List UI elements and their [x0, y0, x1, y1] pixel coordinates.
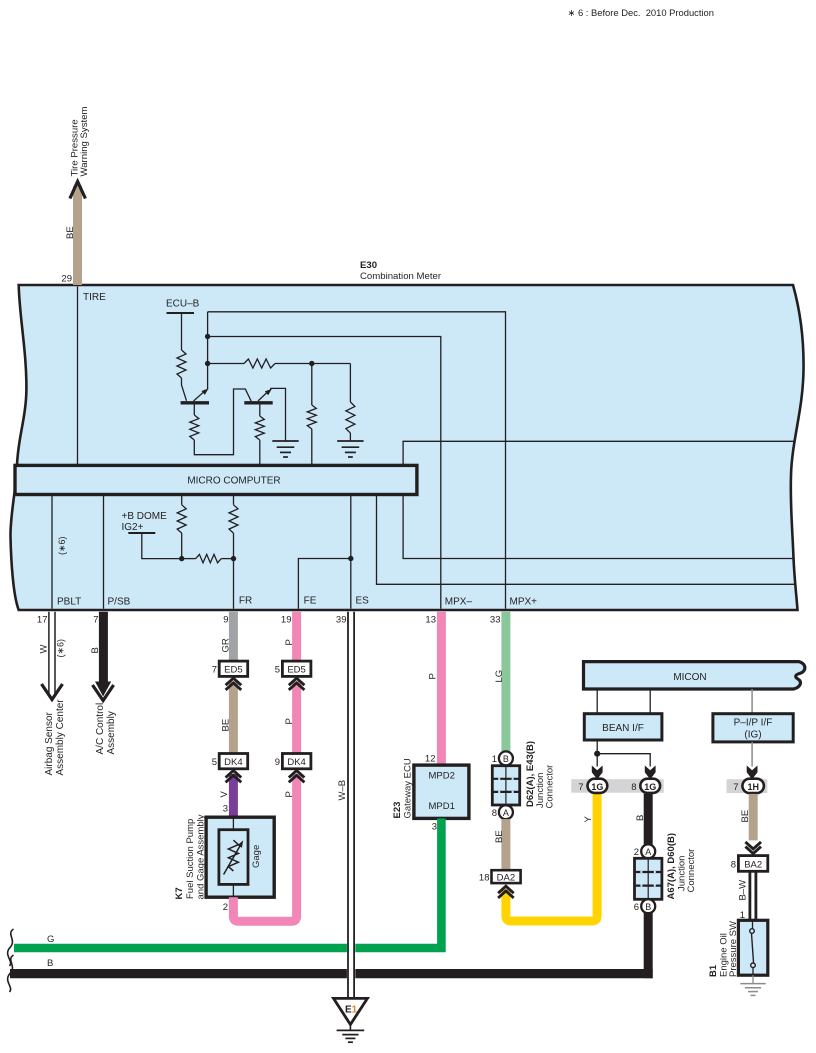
- connector oval 1G pin7: [588, 779, 608, 793]
- svg-text:B: B: [645, 902, 651, 912]
- svg-text:A67(A), D60(B): A67(A), D60(B): [666, 833, 677, 900]
- wire GR pin9: [229, 612, 238, 664]
- resistor R4: [349, 364, 351, 403]
- svg-text:DK4: DK4: [287, 757, 305, 768]
- svg-text:E30: E30: [360, 260, 377, 271]
- svg-text:B1: B1: [708, 964, 719, 977]
- gray band 1G: [571, 779, 663, 793]
- svg-text:1G: 1G: [644, 782, 656, 792]
- svg-text:P–I/P I/F: P–I/P I/F: [734, 718, 773, 729]
- svg-text:E1: E1: [345, 1005, 358, 1016]
- svg-text:2: 2: [634, 847, 639, 858]
- svg-text:MPD2: MPD2: [429, 771, 455, 782]
- svg-text:B–W: B–W: [738, 880, 749, 901]
- svg-text:6: 6: [634, 902, 639, 913]
- connector DK4 pin5: [219, 754, 248, 769]
- svg-text:MPX+: MPX+: [510, 597, 538, 608]
- svg-text:+B DOME: +B DOME: [122, 511, 168, 522]
- svg-text:Combination Meter: Combination Meter: [360, 271, 442, 282]
- svg-text:Connector: Connector: [686, 849, 697, 893]
- svg-text:7: 7: [212, 664, 217, 675]
- svg-text:B: B: [47, 958, 53, 969]
- svg-text:Airbag SensorAssembly Center: Airbag SensorAssembly Center: [44, 699, 66, 776]
- P-I/P I/F (IG) box: [713, 714, 793, 742]
- wire Q1 emitter up: [207, 312, 209, 390]
- BEAN I/F box: [584, 714, 662, 740]
- arrow into connector: [592, 766, 603, 780]
- svg-text:FR: FR: [239, 596, 252, 607]
- wire MPX+ from Q1 emitter: [208, 312, 506, 609]
- ground E1: [334, 998, 368, 1024]
- svg-text:DK4: DK4: [224, 757, 242, 768]
- svg-text:9: 9: [275, 757, 280, 768]
- svg-text:18: 18: [479, 872, 490, 883]
- svg-text:TIRE: TIRE: [83, 292, 106, 303]
- svg-text:∗ 6 : Before Dec. 2010 Produc: ∗ 6 : Before Dec. 2010 Production: [568, 7, 714, 18]
- svg-text:W: W: [39, 645, 50, 654]
- switch contacts: [752, 921, 754, 929]
- micro computer box: [15, 465, 417, 494]
- node dot: [179, 556, 184, 561]
- wire MICON to BEAN I/F: [596, 689, 598, 714]
- svg-text:3: 3: [223, 804, 228, 815]
- wire Y to 1G: [506, 794, 597, 922]
- resistor R6: [244, 359, 275, 368]
- svg-text:A: A: [645, 847, 651, 857]
- variable resistor gauge element: [228, 840, 238, 871]
- svg-text:PBLT: PBLT: [57, 597, 81, 608]
- connector circle A pin2: [641, 844, 655, 858]
- connector oval 1H pin7: [742, 779, 764, 793]
- connector DK4 pin9: [282, 754, 311, 769]
- arrow into connector: [645, 766, 656, 780]
- svg-text:Connector: Connector: [545, 765, 556, 809]
- svg-text:(IG): (IG): [744, 730, 761, 741]
- svg-text:2: 2: [223, 902, 228, 913]
- wire micro computer bottom to lower right bus: [377, 495, 796, 585]
- wire B pin7 to A/C control assembly: [99, 612, 108, 688]
- ground G1: [272, 440, 298, 442]
- connector circle A pin8: [499, 805, 513, 819]
- svg-text:12: 12: [425, 754, 436, 765]
- svg-text:3: 3: [432, 822, 437, 833]
- wire LG pin33: [501, 612, 510, 752]
- node dot: [309, 361, 314, 366]
- wire B-W to B1: [749, 871, 752, 920]
- resistor R8: [233, 495, 235, 505]
- svg-text:and Gage Assembly: and Gage Assembly: [196, 814, 207, 899]
- connector circle B pin1: [499, 751, 513, 765]
- svg-text:P: P: [284, 791, 295, 797]
- svg-text:Pressure SW: Pressure SW: [728, 921, 739, 977]
- svg-text:P: P: [284, 639, 295, 645]
- wire P gauge return U-turn: [233, 774, 296, 921]
- svg-text:Gage: Gage: [251, 845, 262, 868]
- svg-text:BA2: BA2: [744, 860, 762, 871]
- wires BEAN I/F to 1G connectors: [596, 740, 598, 767]
- wire micro computer bottom to right bus: [403, 495, 794, 559]
- svg-text:P: P: [428, 673, 439, 679]
- wire BE below junction: [501, 819, 510, 870]
- node dot: [205, 361, 210, 366]
- svg-text:MICRO COMPUTER: MICRO COMPUTER: [187, 476, 280, 487]
- wire BE pin29 to tire pressure warning system: [73, 186, 82, 285]
- torn end squiggle B: [8, 955, 14, 992]
- svg-text:Fuel Suction Pump: Fuel Suction Pump: [185, 819, 196, 899]
- svg-text:E23: E23: [392, 802, 403, 819]
- wire BE from 1H: [749, 794, 758, 841]
- wire micro computer top to right bus: [403, 441, 795, 465]
- arrow into connector: [747, 766, 758, 780]
- wire G from E23 to bus: [14, 818, 441, 948]
- svg-text:MPD1: MPD1: [429, 801, 455, 812]
- svg-text:W–B: W–B: [337, 780, 348, 801]
- svg-text:5: 5: [212, 757, 217, 768]
- svg-text:Gateway ECU: Gateway ECU: [403, 758, 414, 818]
- gray band 1H: [727, 779, 768, 793]
- node dot: [205, 334, 210, 339]
- svg-text:5: 5: [275, 664, 280, 675]
- MICON box: [584, 662, 805, 689]
- svg-text:9: 9: [223, 614, 228, 625]
- node dot: [594, 751, 600, 757]
- connector ED5 pin7: [219, 661, 248, 676]
- svg-text:GR: GR: [221, 638, 232, 652]
- ground below B1: [752, 975, 754, 983]
- svg-text:BEAN I/F: BEAN I/F: [602, 723, 644, 734]
- svg-text:7: 7: [93, 614, 98, 625]
- svg-text:BE: BE: [65, 226, 76, 239]
- svg-text:8: 8: [631, 782, 636, 793]
- svg-text:MPX–: MPX–: [445, 597, 473, 608]
- wire B bus horizontal: [10, 969, 653, 978]
- wire PBLT: [51, 495, 53, 609]
- wire P: [292, 682, 301, 756]
- wire R2 to Q2: [194, 389, 251, 455]
- ground G2: [337, 440, 363, 442]
- svg-text:13: 13: [425, 614, 436, 625]
- svg-text:P/SB: P/SB: [108, 597, 131, 608]
- svg-text:G: G: [47, 934, 54, 945]
- svg-text:LG: LG: [494, 670, 505, 683]
- resistor R3: [311, 364, 313, 406]
- svg-text:19: 19: [281, 614, 292, 625]
- resistor R7: [181, 495, 183, 505]
- wire MICON to P-I/P I/F: [751, 689, 753, 714]
- torn end squiggle G: [8, 929, 14, 966]
- connector oval 1G pin8: [640, 779, 660, 793]
- wire B down to bus: [644, 913, 653, 978]
- engine oil pressure switch B1 box: [738, 920, 767, 975]
- wire B from 1G: [644, 794, 653, 845]
- wire W-B pin39 to E1: [347, 612, 355, 998]
- svg-text:(∗6): (∗6): [57, 536, 67, 555]
- connector DA2 pin18: [492, 870, 521, 883]
- transistor Q2: [244, 401, 272, 404]
- wire gray to 1H: [751, 742, 753, 767]
- wire BE: [229, 682, 238, 756]
- svg-text:29: 29: [61, 274, 72, 285]
- wire FE branch: [298, 559, 350, 609]
- connector BA2 pin8: [738, 856, 767, 872]
- svg-text:39: 39: [336, 614, 347, 625]
- wire MPX- branch: [208, 337, 441, 609]
- svg-text:B: B: [90, 647, 101, 653]
- svg-text:(∗6): (∗6): [56, 639, 66, 658]
- junction connector A67/D60 box: [635, 858, 662, 899]
- svg-text:BE: BE: [221, 719, 232, 732]
- resistor R2: [193, 405, 195, 416]
- svg-text:DA2: DA2: [497, 872, 515, 883]
- connector ED5 pin5: [282, 661, 311, 676]
- svg-text:ES: ES: [356, 596, 370, 607]
- wire W pin17 to airbag sensor: [48, 612, 50, 694]
- wire Q2 emitter to ground: [271, 388, 286, 441]
- svg-text:B: B: [635, 815, 646, 821]
- resistor R5: [259, 405, 261, 417]
- wire R1 to Q1 collector: [182, 378, 187, 401]
- node dot: [348, 556, 353, 561]
- node TIRE wire: [77, 287, 79, 466]
- svg-text:FE: FE: [304, 596, 317, 607]
- svg-text:V: V: [219, 791, 230, 798]
- connector circle B pin6: [641, 899, 655, 913]
- svg-text:1: 1: [492, 754, 497, 765]
- resistor R1: [177, 350, 186, 378]
- svg-text:8: 8: [731, 860, 736, 871]
- svg-text:P: P: [284, 718, 295, 724]
- svg-text:ED5: ED5: [287, 664, 305, 675]
- wire W-B crossing over buses: [347, 940, 355, 982]
- svg-text:MICON: MICON: [673, 672, 706, 683]
- svg-text:B: B: [503, 754, 509, 764]
- wire P pin19: [292, 612, 301, 664]
- transistor Q1: [181, 401, 209, 404]
- svg-text:A/C ControlAssembly: A/C ControlAssembly: [95, 703, 117, 755]
- svg-text:BE: BE: [740, 810, 751, 823]
- svg-text:IG2+: IG2+: [122, 522, 144, 533]
- svg-text:A: A: [503, 808, 509, 818]
- junction connector D62/E43 box: [492, 766, 519, 805]
- wire ES: [350, 495, 352, 609]
- svg-text:17: 17: [37, 614, 48, 625]
- svg-text:7: 7: [733, 782, 738, 793]
- fuel gauge K7 box: [206, 817, 274, 897]
- svg-text:33: 33: [490, 614, 501, 625]
- arrow to A/C control assembly: [93, 685, 114, 701]
- gateway ECU E23 box: [414, 765, 469, 818]
- svg-text:BE: BE: [494, 830, 505, 843]
- svg-text:Y: Y: [583, 816, 594, 823]
- E30 combination meter body: [10, 285, 803, 610]
- svg-text:ECU–B: ECU–B: [166, 299, 200, 310]
- wire P pin13: [437, 612, 446, 765]
- svg-text:1H: 1H: [747, 782, 759, 792]
- svg-text:Tire PressureWarning System: Tire PressureWarning System: [69, 106, 90, 176]
- wire bias bus: [208, 363, 244, 365]
- arrow to tire pressure warning system: [70, 182, 86, 199]
- wire V: [229, 774, 238, 817]
- svg-text:7: 7: [578, 782, 583, 793]
- svg-text:1G: 1G: [591, 782, 603, 792]
- node dot: [231, 556, 236, 561]
- arrow to airbag sensor assembly center: [42, 684, 63, 700]
- wire P/SB: [103, 495, 105, 609]
- svg-text:K7: K7: [174, 887, 185, 899]
- svg-text:ED5: ED5: [224, 664, 242, 675]
- resistor R9: [196, 554, 222, 562]
- svg-text:8: 8: [492, 808, 497, 819]
